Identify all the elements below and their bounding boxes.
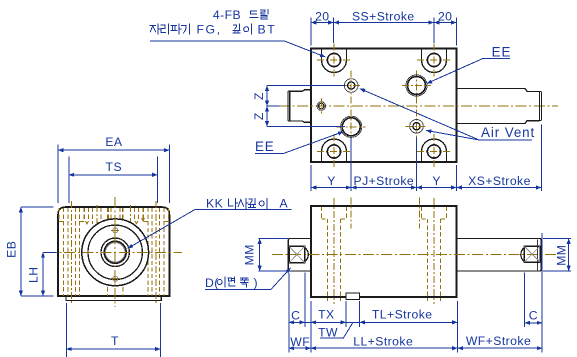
dim C left [289,321,305,323]
hidden mounting hole lines side view x=334 [321,207,323,219]
svg-text:EB: EB [4,241,18,258]
svg-text:T: T [111,334,119,348]
end view centerlines [114,197,116,307]
extension lines bottom dim row (top view) [310,165,312,191]
rod wrench flats square [524,246,540,262]
side view body [311,206,457,297]
svg-text:FG,: FG, [197,23,222,37]
end view foot lip [66,296,161,301]
dim PJ+Stroke [351,187,416,189]
svg-text:LL+Stroke: LL+Stroke [353,334,413,348]
svg-text:20: 20 [315,9,329,23]
svg-text:20: 20 [438,9,452,23]
dim MM right [543,238,571,240]
dim SS+Stroke [334,22,434,24]
dim XS+Stroke [457,187,542,189]
svg-text:Y: Y [327,174,336,188]
mounting hole 4-FB at (334,151.5) [322,139,347,162]
dim EB [21,206,54,208]
svg-text:D(: D( [205,276,219,290]
svg-text:SS+Stroke: SS+Stroke [352,9,415,23]
end view bore circles [82,219,149,286]
dim EA [57,145,59,204]
dim WF+Stroke [458,347,543,349]
air vent hole at (351.2,85.5) [344,79,358,93]
cushion needle screws [113,228,118,233]
mounting hole 4-FB at (434,151.5) [422,139,447,162]
piston rod (top view) [457,89,540,124]
hidden mounting hole lines right [147,208,149,296]
hidden mounting hole lines side view x=434 [421,207,423,219]
svg-text:MM: MM [243,244,257,265]
side view centerline [272,254,558,256]
mounting hole 4-FB at (334,60) [322,49,347,73]
svg-text:Air Vent: Air Vent [481,125,535,140]
dim 20 left [311,22,334,24]
svg-text:XS+Stroke: XS+Stroke [468,174,531,188]
switch slot TW [346,293,360,300]
dim Z Z (port offsets) [267,85,345,87]
svg-text:Z: Z [252,92,266,100]
top view body [311,49,457,163]
mounting hole 4-FB at (434,60) [422,49,447,73]
svg-text:EE: EE [255,139,275,154]
dim TL+Stroke [360,321,458,323]
top view main centerline [279,105,558,107]
svg-text:A: A [280,197,289,211]
svg-text:WF+Stroke: WF+Stroke [466,334,531,348]
svg-text:TX: TX [318,308,334,322]
dim TX [311,321,346,323]
svg-text:EA: EA [105,135,123,149]
dim LL+Stroke [311,347,458,349]
port column centerlines [350,71,352,143]
svg-text:C: C [291,308,300,322]
EE port at (416.5,85.5) [408,77,426,95]
extension lines top dim row [310,18,312,46]
EE port at (351.2,126.8) [342,118,360,136]
svg-text:C: C [529,309,538,323]
svg-text:MM: MM [554,245,568,266]
dim LH [43,251,56,253]
rear cushion hole (top view left) [317,102,326,111]
dim 20 right [434,22,457,24]
end view body [58,207,170,296]
dim MM left [259,238,289,240]
dim TS [68,157,70,204]
hidden mounting hole lines left [63,208,65,296]
rear wrench flats square [289,246,305,263]
dim WF [289,347,311,349]
rear rod stub (side view) [288,239,311,272]
svg-text:): ) [254,276,259,290]
svg-text:EE: EE [492,45,512,60]
svg-text:BT: BT [258,23,277,37]
dim Y right [417,187,457,189]
svg-text:Y: Y [432,174,441,188]
hidden port centerlines side view [350,198,352,229]
piston rod (side view) [457,239,542,272]
dim C right [525,322,543,324]
extension lines side bottom [288,273,290,353]
hidden port lines top strip [84,208,86,219]
svg-text:PJ+Stroke: PJ+Stroke [353,174,414,188]
svg-text:TS: TS [106,160,122,174]
svg-text:LH: LH [26,267,40,283]
svg-text:Z: Z [252,112,266,120]
rear rod stub (top view) [290,90,311,123]
dim T [65,303,67,357]
svg-text:4-FB: 4-FB [213,8,241,22]
air vent hole at (416.5,126.3) [410,120,424,134]
svg-text:KK: KK [206,197,223,211]
end view hidden hole lines center [107,208,109,296]
dim Y left [311,187,351,189]
svg-text:WF: WF [290,335,310,349]
svg-text:TL+Stroke: TL+Stroke [372,308,433,322]
